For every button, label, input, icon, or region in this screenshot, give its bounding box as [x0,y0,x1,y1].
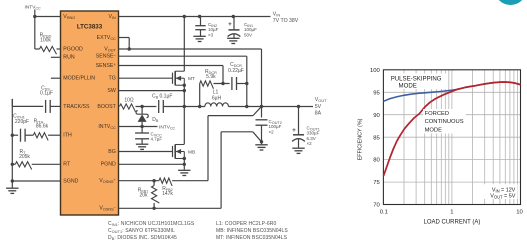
node junction DCR left [198,105,201,108]
ground left [6,188,18,193]
svg-text:147k: 147k [162,191,173,197]
resistor 10 ohm boost [120,98,136,112]
svg-text:75: 75 [373,180,380,186]
graph y axis tick labels [370,68,381,209]
svg-text:LTC3833: LTC3833 [77,24,103,31]
node junction RFB1 bottom [152,207,155,210]
svg-text:VIN: VIN [108,14,116,20]
resistor RFB2 147k [159,178,173,197]
node INTVCC top-left label [25,4,42,10]
wire VOSNS- row [119,207,222,209]
svg-text:5.9k: 5.9k [206,74,216,80]
capacitor CITH1 220pF [12,113,29,141]
svg-text:CB: CB [152,94,159,100]
ground CVCC [136,144,148,149]
label VOUT output [315,97,327,117]
capacitor COUT2 100uF x2 [256,107,282,145]
wire RPGD to PGOOD pin [57,48,61,50]
svg-text:20k: 20k [139,193,148,199]
wire TG row [119,77,173,79]
wire VOSNS+ diagonal [253,107,262,116]
svg-text:4.7µF: 4.7µF [151,137,163,142]
wire CSS to TRACK/SS pin [50,105,60,107]
wire left ground vertical [11,106,13,181]
svg-text:MB: INFINEON BSC035N04LS: MB: INFINEON BSC035N04LS [216,228,288,234]
wire DCR branch up [199,84,201,107]
node junction DB cathode [140,105,143,108]
svg-text:10Ω: 10Ω [124,98,134,104]
graph annotation pulse-skipping mode [389,74,448,90]
capacitor CIN2 10uF x3 [195,17,218,38]
resistor RDCR 5.9k [200,69,217,89]
ground CIN1 [227,38,239,43]
wire PGND row [119,163,185,165]
wire SGND row [12,180,60,182]
svg-text:RUN: RUN [63,55,75,61]
wire INTVcc stub down [34,10,36,17]
label notes column 2 [216,221,288,241]
capacitor CVCC 4.7uF [135,127,162,144]
svg-text:MT: MT [188,76,195,82]
capacitor CIN1 100uF 50V polarized [228,17,258,39]
svg-text:7V TO 38V: 7V TO 38V [273,18,299,24]
svg-text:MB: MB [188,150,195,156]
svg-text:10: 10 [516,209,523,215]
capacitor CB 0.1uF [152,94,172,113]
node junction SW-main [183,105,186,108]
node junction VOUT-COUT1 [297,105,300,108]
svg-text:SW: SW [107,88,116,94]
graph y axis title [357,118,363,160]
svg-text:L1: L1 [213,90,219,96]
svg-text:+: + [292,127,296,134]
node junction INTVCC [140,125,143,128]
node junction SW [183,89,186,92]
svg-text:205k: 205k [19,154,30,160]
wire VOSNS+ row [119,180,160,182]
ground COUT1 [292,148,304,153]
svg-text:INTVCC: INTVCC [98,124,116,130]
svg-text:MODE: MODE [425,128,443,134]
svg-text:INTVCC: INTVCC [159,124,176,130]
svg-text:BOOST: BOOST [97,104,116,110]
wire SENSE- row [119,56,247,83]
graph vertical gridlines [404,70,517,205]
svg-text:50V: 50V [244,33,252,38]
svg-text:LOAD CURRENT (A): LOAD CURRENT (A) [423,219,480,225]
label notes column 1 [108,221,195,241]
svg-text:+: + [228,21,232,28]
svg-text:220pF: 220pF [15,119,29,125]
capacitor CSS 0.1uF [40,85,53,113]
wire SENSE+ row [119,66,224,84]
svg-text:PGOOD: PGOOD [63,46,83,52]
svg-text:SENSE+: SENSE+ [96,62,117,69]
graph x axis tick labels [380,209,524,215]
graph x axis title [423,219,480,225]
wire VIN rail [119,16,271,18]
resistor RFB1 20k [138,181,160,209]
svg-text:TRACK/SS: TRACK/SS [63,104,90,110]
svg-text:TG: TG [109,76,116,82]
wire RDCR to CDCR [214,83,230,85]
wire MB source down [183,159,185,170]
wire RUN stub [51,56,61,58]
svg-text:MODE/PLLIN: MODE/PLLIN [63,76,95,82]
wire MB drain up [183,107,185,145]
svg-text:CONTINUOUS: CONTINUOUS [425,119,464,125]
resistor RT 205k [12,149,31,170]
node junction DCR right [245,105,248,108]
node junction ITH row [11,134,14,137]
wire CSS row left [12,105,43,107]
wire RITH to ITH pin [48,134,60,136]
svg-text:COUT1: SANYO 6TPE330MIL: COUT1: SANYO 6TPE330MIL [108,228,175,234]
svg-text:8A: 8A [315,111,322,117]
wire RT to pin [32,163,61,165]
wire SW row [119,90,185,92]
svg-text:70: 70 [373,203,380,209]
wire to RPGD [35,48,40,50]
svg-text:VIN: VIN [273,11,281,17]
graph annotation conditions [484,184,518,200]
transistor MB bottom MOSFET [173,144,196,160]
capacitor CDCR 0.22uF [228,62,244,90]
svg-text:100k: 100k [40,37,51,43]
svg-text:PULSE-SKIPPING: PULSE-SKIPPING [391,76,442,83]
IC right pin labels [96,14,117,212]
capacitor COUT1 330uF 6.3V x2 polarized [292,107,320,148]
svg-text:0.1µF: 0.1µF [160,94,173,100]
wire CDCR down to VOUT row [246,84,248,107]
wire SW to L1 [184,106,205,108]
svg-text:×2: ×2 [307,141,313,146]
resistor RITH 86.6k [25,118,49,140]
node junction RFB top [152,179,155,182]
graph curve forced continuous (red) [384,82,521,176]
resistor RPGD [40,32,57,54]
wire VOSNS+ riser [208,116,253,181]
wire RFB2 to sense riser [172,180,208,182]
node junction EXTVCC-VOUT [128,47,131,50]
node junction SENSE- tap [245,82,248,85]
svg-text:PGND: PGND [101,162,116,168]
wire L1 to VOUT node [228,106,313,108]
svg-text:0.1µF: 0.1µF [40,91,53,97]
wire EXTVCC stub [119,38,130,50]
svg-text:INTVCC: INTVCC [25,4,42,10]
svg-text:EXTVCC: EXTVCC [97,35,116,41]
wire boost node [136,106,157,108]
svg-text:VIN = 12V: VIN = 12V [492,188,516,194]
svg-text:MT: INFINEON BSC035N04LS: MT: INFINEON BSC035N04LS [216,235,288,241]
svg-text:VOUT: VOUT [315,97,327,103]
label VIN supply [273,11,299,24]
svg-text:MODE: MODE [399,83,417,90]
node junction CIN2 [198,15,201,18]
svg-text:ITH: ITH [63,133,72,139]
wire VRNG row [35,16,61,18]
node junction VOUT-COUT2 [260,105,263,108]
wire BG row [119,151,173,153]
svg-text:VOUT = 5V: VOUT = 5V [490,194,515,200]
svg-text:100µF: 100µF [244,27,257,32]
svg-text:86.6k: 86.6k [36,123,49,129]
ground COUT2 [255,145,267,150]
svg-text:×2: ×2 [269,129,275,134]
diode DB schottky [136,107,159,127]
svg-text:10µF: 10µF [208,27,219,32]
graph annotation forced continuous mode [423,109,466,134]
svg-text:100: 100 [370,68,381,74]
svg-text:×3: ×3 [208,33,214,38]
svg-text:EFFICIENCY (%): EFFICIENCY (%) [357,118,363,160]
wire CSS corner [11,99,13,107]
svg-text:SGND: SGND [63,178,78,184]
svg-text:DB: DB [152,117,159,123]
node junction SGND row [11,179,14,182]
wire INTVCC row [119,126,158,128]
transistor MT top MOSFET [173,71,195,87]
op-amp U1 LTC3833 controller IC body [61,11,119,215]
wire CB to SW node [163,106,184,108]
svg-text:95: 95 [373,90,380,96]
svg-text:RT: RT [63,162,71,168]
node junction CIN1 [232,15,235,18]
wire VOUT pin row [119,49,262,107]
node junction PGND [183,163,186,166]
inductor L1 6uH [205,90,229,107]
wire MT drain up [183,17,185,72]
wire VOSNS- diagonal [253,132,262,142]
graph curve pulse-skipping (blue) [384,82,521,101]
node INTVCC net label [159,124,176,130]
svg-text:1: 1 [450,209,453,215]
svg-text:90: 90 [373,113,380,119]
wire MT source down [183,85,185,106]
node junction MT drain [183,15,186,18]
svg-text:80: 80 [373,158,380,164]
IC left pin labels [63,14,95,185]
ground MB source [178,170,190,175]
svg-text:0.1: 0.1 [380,209,388,215]
node junction SENSE+ tap [221,82,224,85]
wire VOSNS- riser [221,132,253,209]
svg-text:BG: BG [108,149,116,155]
decorative teal circle badge [495,0,527,5]
svg-text:VRNG: VRNG [63,14,75,20]
svg-text:0.22µF: 0.22µF [228,68,244,74]
wire INTVcc vertical to RPGD [34,17,36,50]
svg-text:5V: 5V [315,104,322,110]
ground CIN2 [193,36,205,41]
node junction VRNG [33,15,36,18]
wire CDCR right [237,83,247,85]
svg-text:SENSE–: SENSE– [96,52,117,59]
graph horizontal gridlines [383,92,520,182]
svg-text:6µH: 6µH [212,96,222,102]
graph frame [383,70,520,205]
svg-text:DB: DIODES INC. SDM10K45: DB: DIODES INC. SDM10K45 [108,235,177,241]
svg-text:85: 85 [373,135,380,141]
wire SGND down [11,181,13,188]
node junction VOSNS- sense [260,140,263,143]
wire MODE/PLLIN stub [51,77,61,79]
svg-text:L1: COOPER HC2LP-6R0: L1: COOPER HC2LP-6R0 [216,221,276,227]
svg-text:FORCED: FORCED [425,111,449,117]
svg-text:CIN1: NICHICON UCJ1H101MCL1GS: CIN1: NICHICON UCJ1H101MCL1GS [108,221,195,227]
node junction RT row [11,163,14,166]
